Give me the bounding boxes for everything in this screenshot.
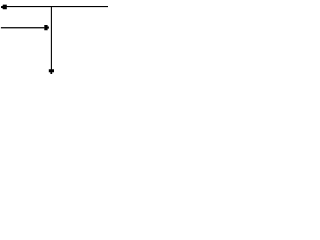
wire vertical xyxy=(50,6,52,70)
arrowhead down on vertical wire xyxy=(49,69,54,74)
wire top horizontal xyxy=(5,6,108,8)
background xyxy=(0,0,111,81)
wire lower horizontal xyxy=(1,27,45,29)
arrowhead left on top wire xyxy=(1,5,7,10)
arrowhead right on lower wire xyxy=(44,25,49,30)
